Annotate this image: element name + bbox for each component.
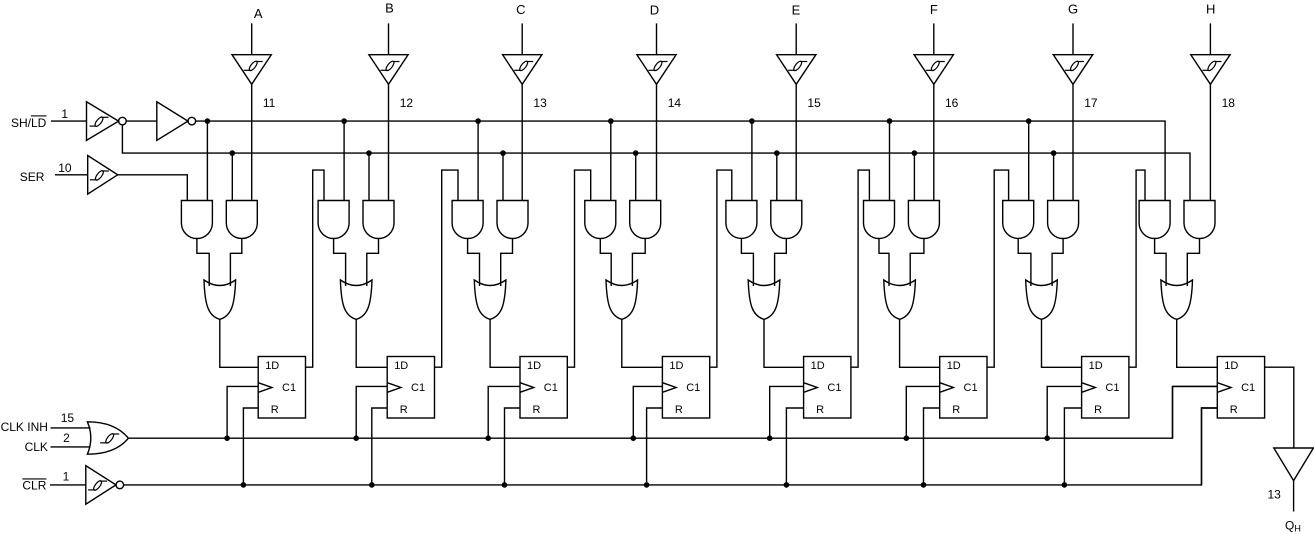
wire SER input lead [55, 174, 88, 176]
wire H buffer to load AND [1209, 84, 1211, 200]
wire load bus drop C [502, 153, 504, 200]
wire OR A out to 1D [220, 319, 258, 367]
wire OR F out to 1D [900, 319, 940, 367]
svg-text:H: H [1206, 2, 1215, 17]
svg-text:R: R [816, 404, 824, 416]
junction load bus at stage A [230, 150, 236, 156]
schmitt inverter U5 (CLR) [86, 466, 124, 505]
svg-text:1D: 1D [947, 360, 961, 372]
wire OR E out to 1D [764, 319, 804, 367]
wire input B lead [388, 23, 390, 54]
svg-text:1D: 1D [394, 360, 408, 372]
junction load bus at stage F [912, 150, 918, 156]
wire input G lead [1072, 23, 1074, 54]
wire AND H2 out to OR [1187, 239, 1199, 287]
svg-text:14: 14 [668, 96, 682, 110]
svg-text:SER: SER [20, 170, 45, 184]
junction shift bus at stage C [475, 118, 481, 124]
svg-text:R: R [1094, 404, 1102, 416]
schmitt inverter U1 (SH/LD) [87, 102, 127, 141]
wire clock bus [128, 386, 1217, 438]
wire SER to first AND [118, 175, 188, 201]
wire shift bus drop F [889, 121, 891, 200]
svg-text:C: C [516, 2, 525, 17]
schmitt buffer G [1053, 55, 1092, 85]
wire QB to next stage [435, 170, 459, 367]
schmitt buffer C [503, 55, 542, 85]
svg-text:1D: 1D [811, 360, 825, 372]
wire AND C2 out to OR [501, 239, 513, 287]
schmitt buffer F [914, 55, 953, 85]
wire OR D out to 1D [622, 319, 663, 367]
wire clock tap H [1173, 386, 1218, 438]
wire AND A1 out to OR [197, 239, 209, 287]
wire QD to next stage [710, 170, 732, 367]
svg-text:2: 2 [63, 431, 70, 445]
svg-text:1: 1 [63, 469, 70, 483]
wire SH/LD input lead [51, 120, 87, 122]
svg-text:C1: C1 [686, 382, 700, 394]
junction shift bus at stage A [205, 118, 211, 124]
AND gate A2 (load path) [226, 201, 257, 239]
junction reset bus at stage G [1062, 482, 1068, 488]
junction reset bus at stage D [644, 482, 650, 488]
junction load bus at stage C [500, 150, 506, 156]
wire input D lead [656, 23, 658, 54]
wire AND H1 out to OR [1155, 239, 1167, 287]
junction load bus at stage G [1051, 150, 1057, 156]
svg-text:R: R [1230, 404, 1238, 416]
OR gate F [884, 280, 916, 319]
wire shift bus drop C [477, 121, 479, 200]
svg-text:C1: C1 [1241, 382, 1255, 394]
wire input F lead [933, 23, 935, 54]
wire input A lead [251, 23, 253, 54]
wire F buffer to load AND [933, 84, 935, 200]
junction load bus at stage D [633, 150, 639, 156]
AND gate G2 (load path) [1048, 201, 1079, 239]
output buffer U6 (QH) [1274, 448, 1314, 481]
junction load bus at stage B [366, 150, 372, 156]
wire clock tap B [356, 386, 387, 438]
junction reset bus at stage F [921, 482, 927, 488]
svg-text:R: R [675, 404, 683, 416]
svg-text:R: R [952, 404, 960, 416]
wire load-enable bus [122, 125, 1190, 201]
svg-text:C1: C1 [411, 382, 425, 394]
svg-text:16: 16 [945, 96, 959, 110]
AND gate H2 (load path) [1184, 201, 1215, 239]
wire reset tap E [786, 408, 803, 485]
wire load bus drop B [368, 153, 370, 200]
svg-text:15: 15 [61, 411, 75, 425]
svg-text:18: 18 [1222, 96, 1236, 110]
svg-text:13: 13 [1268, 488, 1282, 502]
wire shift bus drop A [206, 121, 208, 200]
svg-text:G: G [1068, 2, 1078, 17]
wire load bus drop E [776, 153, 778, 200]
AND gate D1 (shift path) [585, 201, 616, 239]
junction clock bus at stage G [1044, 435, 1050, 441]
junction shift bus at stage G [1026, 118, 1032, 124]
flip-flop FFH (8th stage D latch) [1217, 357, 1264, 419]
wire CLK INH lead [51, 427, 91, 429]
svg-text:E: E [792, 3, 801, 18]
wire B buffer to load AND [388, 84, 390, 200]
flip-flop FFB (2th stage D latch) [387, 357, 434, 419]
schmitt OR gate U4 (CLK INH + CLK) [87, 422, 128, 454]
wire QC to next stage [567, 170, 590, 367]
OR gate G [1026, 280, 1058, 319]
AND gate A1 (shift path) [181, 201, 212, 239]
wire QH output lead [1293, 481, 1295, 512]
svg-text:11: 11 [263, 96, 276, 110]
schmitt buffer A [232, 55, 271, 85]
wire clock tap G [1047, 386, 1081, 438]
svg-text:R: R [533, 404, 541, 416]
OR gate D [606, 280, 638, 319]
inverter U2 (shift enable) [157, 102, 196, 141]
wire clock tap A [227, 386, 258, 438]
OR gate A [204, 280, 236, 319]
svg-text:QH: QH [1285, 518, 1301, 533]
flip-flop FFC (3th stage D latch) [520, 357, 567, 419]
svg-text:1D: 1D [527, 360, 541, 372]
wire QF to next stage [987, 170, 1009, 367]
wire D buffer to load AND [656, 84, 658, 200]
flip-flop FFE (5th stage D latch) [804, 357, 851, 419]
wire AND F2 out to OR [910, 239, 924, 287]
AND gate D2 (load path) [630, 201, 661, 239]
wire clock tap D [633, 386, 662, 438]
wire shift bus drop B [343, 121, 345, 200]
svg-text:C1: C1 [282, 382, 296, 394]
wire reset tap A [243, 408, 258, 485]
svg-text:A: A [254, 6, 263, 21]
junction shift bus at stage D [608, 118, 614, 124]
wire load bus drop F [913, 153, 915, 200]
svg-text:CLR: CLR [22, 478, 46, 492]
junction clock bus at stage A [224, 435, 230, 441]
wire reset tap G [1064, 408, 1081, 485]
junction reset bus at stage E [784, 482, 790, 488]
svg-text:D: D [650, 3, 659, 18]
wire clock tap C [488, 386, 520, 438]
svg-text:1: 1 [61, 107, 68, 121]
wire OR H out to 1D [1177, 319, 1218, 367]
schmitt buffer U3 (SER) [88, 156, 118, 195]
wire load bus drop A [231, 153, 233, 200]
OR gate C [474, 280, 506, 319]
AND gate B1 (shift path) [318, 201, 349, 239]
wire AND D2 out to OR [632, 239, 645, 287]
AND gate E1 (shift path) [726, 201, 757, 239]
AND gate C2 (load path) [497, 201, 528, 239]
AND gate G1 (shift path) [1003, 201, 1034, 239]
AND gate H1 (shift path) [1139, 201, 1170, 239]
wire OR G out to 1D [1042, 319, 1082, 367]
svg-text:1D: 1D [669, 360, 683, 372]
wire load bus drop D [635, 153, 637, 200]
wire QA to next stage [306, 170, 325, 367]
schmitt buffer H [1191, 55, 1230, 85]
wire shift-enable bus [196, 121, 1166, 200]
junction reset bus at stage A [241, 482, 247, 488]
OR gate H [1161, 280, 1193, 319]
svg-text:C1: C1 [1105, 382, 1119, 394]
svg-text:R: R [271, 404, 279, 416]
wire shift bus drop G [1028, 121, 1030, 200]
flip-flop FFF (6th stage D latch) [940, 357, 987, 419]
svg-text:CLK: CLK [25, 440, 48, 454]
wire AND G1 out to OR [1018, 239, 1031, 287]
svg-text:R: R [400, 404, 408, 416]
AND gate C1 (shift path) [452, 201, 483, 239]
wire AND C1 out to OR [468, 239, 480, 287]
wire AND G2 out to OR [1052, 239, 1063, 287]
wire OR B out to 1D [356, 319, 387, 367]
wire reset bus [124, 408, 1218, 485]
svg-text:B: B [385, 1, 394, 16]
svg-text:C1: C1 [964, 382, 978, 394]
wire reset tap D [647, 408, 663, 485]
flip-flop FFG (7th stage D latch) [1082, 357, 1129, 419]
wire C buffer to load AND [521, 84, 523, 200]
wire clock tap F [906, 386, 939, 438]
wire AND E2 out to OR [775, 239, 787, 287]
svg-text:10: 10 [58, 161, 72, 175]
OR gate E [748, 280, 780, 319]
wire CLR input lead [50, 484, 86, 486]
wire AND A2 out to OR [230, 239, 241, 287]
wire AND F1 out to OR [879, 239, 889, 287]
wire CLK lead [51, 446, 91, 448]
wire E buffer to load AND [795, 84, 797, 200]
schmitt buffer E [777, 55, 816, 85]
wire G buffer to load AND [1072, 84, 1074, 200]
svg-text:CLK INH: CLK INH [1, 420, 48, 434]
wire shift bus drop D [610, 121, 612, 200]
junction clock bus at stage F [904, 435, 910, 441]
svg-text:F: F [930, 2, 938, 17]
wire input E lead [795, 23, 797, 54]
wire shift bus drop E [751, 121, 753, 200]
junction reset bus at stage C [502, 482, 508, 488]
junction shift bus at stage F [887, 118, 893, 124]
junction shift bus at stage B [341, 118, 347, 124]
wire reset tap B [372, 408, 387, 485]
wire AND B2 out to OR [367, 239, 379, 287]
svg-text:1D: 1D [265, 360, 279, 372]
OR gate B [340, 280, 372, 319]
wire U1 to U2 [126, 120, 157, 122]
wire reset tap C [505, 408, 521, 485]
svg-text:13: 13 [533, 96, 547, 110]
junction clock bus at stage C [485, 435, 491, 441]
junction shift bus at stage E [749, 118, 755, 124]
svg-text:15: 15 [807, 96, 821, 110]
overline on CLR [22, 478, 46, 480]
flip-flop FFA (1th stage D latch) [258, 357, 305, 419]
wire QE to next stage [851, 170, 870, 367]
wire load bus drop G [1053, 153, 1055, 200]
svg-text:C1: C1 [827, 382, 841, 394]
svg-text:12: 12 [400, 96, 414, 110]
wire input C lead [521, 23, 523, 54]
wire OR C out to 1D [490, 319, 520, 367]
svg-text:SH/LD: SH/LD [11, 116, 47, 130]
svg-text:17: 17 [1084, 96, 1098, 110]
wire AND B1 out to OR [334, 239, 346, 287]
junction clock bus at stage D [631, 435, 637, 441]
AND gate E2 (load path) [771, 201, 802, 239]
svg-text:1D: 1D [1089, 360, 1103, 372]
wire reset tap H [1202, 408, 1218, 485]
junction load bus at stage E [774, 150, 780, 156]
AND gate F2 (load path) [908, 201, 939, 239]
junction reset bus at stage B [369, 482, 375, 488]
wire clock tap E [770, 386, 804, 438]
AND gate F1 (shift path) [864, 201, 895, 239]
wire A buffer to load AND [251, 84, 253, 200]
overline on LD of SH/LD [31, 115, 47, 117]
svg-text:C1: C1 [544, 382, 558, 394]
wire input H lead [1209, 23, 1211, 54]
AND gate B2 (load path) [363, 201, 394, 239]
junction clock bus at stage B [353, 435, 359, 441]
schmitt buffer B [369, 55, 408, 85]
svg-text:1D: 1D [1224, 360, 1238, 372]
schmitt buffer D [637, 55, 676, 85]
wire QH to output buffer [1265, 367, 1294, 448]
flip-flop FFD (4th stage D latch) [662, 357, 709, 419]
junction clock bus at stage E [767, 435, 773, 441]
wire QG to next stage [1129, 170, 1145, 367]
wire AND D1 out to OR [600, 239, 611, 287]
wire reset tap F [924, 408, 940, 485]
wire AND E1 out to OR [741, 239, 753, 287]
